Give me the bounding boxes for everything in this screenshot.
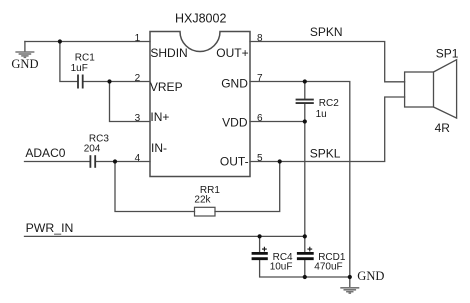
- svg-text:SP1: SP1: [436, 46, 459, 60]
- junction dot node pin1/RC1: [58, 39, 62, 43]
- svg-text:IN-: IN-: [151, 141, 167, 155]
- speaker SP1 symbol: [405, 60, 457, 118]
- op-amp U1 HXJ8002 body: [150, 32, 250, 177]
- svg-text:2: 2: [135, 73, 141, 84]
- junction dot node rail/RCD1: [303, 275, 307, 279]
- wire RC2 top stub: [304, 82, 306, 99]
- wire RR1 to OUT- junction: [215, 162, 280, 212]
- wire pin6 VDD: [250, 121, 305, 123]
- svg-text:204: 204: [84, 144, 101, 155]
- wire RC1 to pin2 VREP: [83, 81, 150, 83]
- svg-text:VDD: VDD: [222, 116, 248, 130]
- ground GND2 symbol bars: [340, 288, 359, 293]
- capacitor RC4 plates: [252, 253, 268, 258]
- wire junction1 to RC1: [60, 42, 77, 82]
- svg-text:RC1: RC1: [75, 52, 95, 63]
- polarity plus RC4: [262, 247, 267, 252]
- wire junction3 down to RR1: [115, 162, 195, 212]
- junction dot node rail/GND2: [348, 275, 352, 279]
- svg-text:470uF: 470uF: [314, 262, 342, 273]
- svg-text:10uF: 10uF: [270, 262, 293, 273]
- wire RC3 to pin4 IN-: [96, 161, 150, 163]
- svg-text:4: 4: [135, 153, 141, 164]
- capacitor C2 plates RC2: [296, 100, 314, 104]
- junction dot node OUT-/RR1: [278, 159, 282, 163]
- junction dot node pin6/RC2: [303, 119, 307, 123]
- svg-text:RC2: RC2: [319, 98, 339, 109]
- junction dot node IN-/RR1: [113, 159, 117, 163]
- svg-text:GND: GND: [221, 76, 248, 90]
- ground GND2 stub: [349, 277, 351, 287]
- svg-text:OUT-: OUT-: [220, 154, 249, 168]
- svg-text:5: 5: [257, 153, 263, 164]
- svg-text:IN+: IN+: [150, 110, 169, 124]
- svg-text:SPKL: SPKL: [310, 146, 341, 160]
- svg-text:PWR_IN: PWR_IN: [26, 221, 74, 235]
- polarity plus RCD1: [307, 247, 312, 252]
- wire VDD net down to PWR_IN and RCD1: [304, 122, 306, 252]
- svg-text:SHDIN: SHDIN: [150, 46, 187, 60]
- wire pin8 OUT+ to speaker SPKN: [250, 42, 405, 82]
- junction dot node PWR_IN/RC4: [258, 234, 262, 238]
- wire pin5 OUT- to speaker SPKL: [250, 97, 405, 162]
- svg-text:6: 6: [257, 113, 263, 124]
- svg-text:8: 8: [257, 33, 263, 44]
- svg-text:1u: 1u: [316, 109, 327, 120]
- wire pin1 net GND to SHDIN: [25, 41, 150, 43]
- svg-text:GND: GND: [11, 57, 38, 71]
- wire pin7 GND to ground GND2: [250, 82, 350, 278]
- ground GND1 symbol bars: [15, 52, 34, 57]
- wire ADAC0 to RC3: [25, 161, 90, 163]
- svg-text:4R: 4R: [435, 121, 451, 135]
- junction dot node VREP/IN+: [107, 79, 111, 83]
- svg-text:SPKN: SPKN: [310, 25, 343, 39]
- svg-text:ADAC0: ADAC0: [25, 146, 65, 160]
- svg-text:3: 3: [135, 113, 141, 124]
- wire RC4 top stub: [259, 236, 261, 252]
- svg-text:GND: GND: [357, 269, 384, 283]
- capacitor C1 plates RC1: [78, 75, 83, 89]
- svg-text:22k: 22k: [194, 195, 211, 206]
- svg-text:VREP: VREP: [150, 80, 183, 94]
- ground GND1 stub: [24, 42, 26, 52]
- wire PWR_IN net: [25, 235, 305, 237]
- resistor RR1 box: [195, 207, 216, 216]
- wire junction2 to pin3 IN+: [110, 82, 151, 122]
- wire RC4 bottom to ground rail: [260, 260, 350, 277]
- junction dot node PWR_IN/VDD: [303, 234, 307, 238]
- svg-text:1: 1: [135, 33, 141, 44]
- capacitor C3 plates RC3: [90, 155, 95, 168]
- wire RC2 bottom stub to pin6: [304, 104, 306, 122]
- wire RCD1 bottom stub: [304, 260, 306, 277]
- capacitor RCD1 plates: [297, 253, 314, 258]
- svg-text:7: 7: [257, 73, 263, 84]
- svg-text:HXJ8002: HXJ8002: [175, 12, 226, 26]
- svg-text:OUT+: OUT+: [216, 46, 248, 60]
- junction dot node pin7/RC2: [303, 79, 307, 83]
- svg-text:1uF: 1uF: [71, 63, 88, 74]
